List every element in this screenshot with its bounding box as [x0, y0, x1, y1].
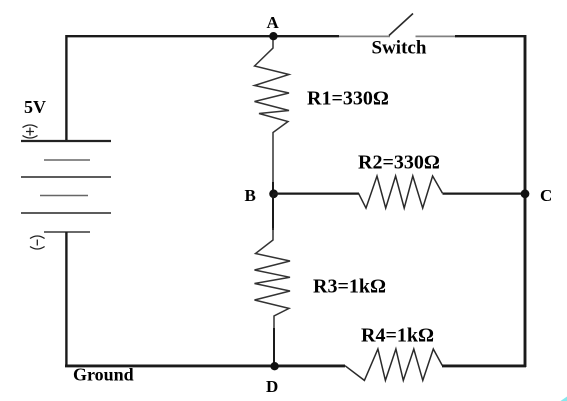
resistor R4 (horizontal zigzag D to C): [345, 349, 442, 380]
resistor R2 (horizontal zigzag B to C): [359, 176, 443, 208]
wire: node A to switch (gray lead): [273, 35, 339, 37]
battery V1 cell line long: [21, 212, 111, 214]
battery V1 cell line short: [44, 159, 90, 161]
wire: R2 right lead to node C: [443, 193, 526, 195]
svg-text:R4=1kΩ: R4=1kΩ: [361, 325, 434, 347]
node A junction dot: [269, 32, 277, 40]
battery V1 plate - (short): [44, 231, 90, 233]
node C junction dot: [521, 189, 530, 198]
wire left rail: top corner down to battery + plate: [65, 35, 67, 141]
svg-text:A: A: [267, 13, 280, 32]
svg-text:R2=330Ω: R2=330Ω: [358, 152, 440, 174]
battery V1 cell line long: [21, 176, 111, 178]
node B junction dot: [269, 189, 278, 198]
cursor artifact (cyan) bottom-right: [561, 397, 567, 401]
svg-text:C: C: [540, 186, 552, 205]
svg-text:D: D: [266, 377, 278, 396]
wire: switch to top-right corner: [416, 35, 457, 37]
svg-text:R3=1kΩ: R3=1kΩ: [313, 276, 386, 298]
battery (+) terminal symbol: [23, 125, 38, 138]
switch S1 (open blade): [389, 14, 413, 36]
svg-text:5V: 5V: [24, 97, 46, 117]
battery V1 cell line short: [40, 195, 88, 197]
battery (-) terminal symbol: [30, 236, 45, 249]
wire bottom rail: left corner through node D to R4 left lead: [65, 364, 345, 367]
wire bottom rail: R4 right lead to bottom-right corner: [442, 364, 526, 367]
wire: R3 lower lead to node D: [273, 328, 275, 366]
wire: node B to R3 upper lead: [272, 194, 274, 230]
wire top-left: node A to left rail corner: [66, 35, 273, 37]
battery V1 plate + (long): [21, 140, 111, 142]
wire right rail: top corner down through node C to bottom corner: [524, 35, 527, 367]
wire left rail: battery - plate down to bottom rail: [65, 232, 67, 367]
wire: R1 lower lead to node B: [272, 182, 274, 194]
resistor R3 (vertical zigzag B to D): [255, 228, 291, 330]
svg-text:B: B: [245, 186, 256, 205]
wire: node B to R2 left lead: [273, 193, 359, 195]
node D junction dot: [270, 362, 278, 370]
svg-text:R1=330Ω: R1=330Ω: [307, 88, 389, 110]
resistor R1 (vertical zigzag A to B): [255, 40, 290, 184]
svg-text:Ground: Ground: [73, 365, 134, 385]
svg-text:Switch: Switch: [372, 38, 427, 59]
